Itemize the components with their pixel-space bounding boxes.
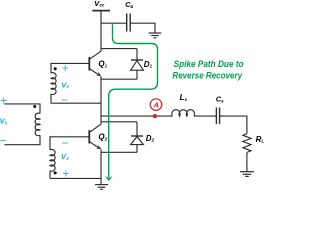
spike path arrowhead [105, 176, 113, 181]
svg-text:−: − [0, 133, 6, 147]
svg-text:vs: vs [0, 115, 8, 126]
wire D2 stage bottom [101, 151, 137, 153]
transformer primary winding [4, 104, 40, 145]
transformer upper secondary winding [51, 63, 89, 103]
wire Q1 stage bottom [101, 78, 137, 80]
svg-text:vs: vs [61, 79, 69, 90]
svg-text:CB: CB [125, 2, 133, 9]
node A circle [150, 99, 162, 111]
svg-text:Reverse Recovery: Reverse Recovery [172, 71, 242, 81]
diode D2 [131, 122, 144, 153]
node A dot [153, 114, 157, 118]
svg-text:Cs: Cs [216, 95, 224, 104]
phase dot upper secondary [54, 67, 57, 70]
ground (CB) [149, 33, 162, 38]
phase dot primary [33, 105, 36, 108]
phase dot lower secondary [54, 171, 57, 174]
Vcc power bar [92, 10, 110, 12]
svg-text:Spike Path Due to: Spike Path Due to [174, 59, 244, 69]
wire Cs to RL [220, 116, 247, 134]
svg-text:Q1: Q1 [98, 59, 107, 68]
wire CB to ground [131, 23, 156, 33]
ground (main) [95, 185, 108, 190]
svg-text:Q2: Q2 [98, 132, 107, 141]
spike path (green) [109, 24, 158, 177]
wire mid rail (Q1 emitter to Q2 collector) [100, 76, 102, 124]
ground (RL) [240, 172, 254, 177]
wire Q2 emitter to ground [100, 149, 102, 184]
inductor Ls [172, 110, 195, 117]
diode D1 [131, 49, 144, 80]
wire RL to ground [246, 152, 248, 171]
svg-text:−: − [62, 136, 69, 150]
svg-text:−: − [61, 93, 68, 107]
svg-text:Vcc: Vcc [94, 0, 105, 8]
transformer lower secondary winding [50, 137, 89, 179]
capacitor CB [127, 14, 131, 32]
wire lower secondary return [50, 177, 101, 179]
svg-text:A: A [153, 100, 159, 109]
transistor Q1 [89, 51, 101, 76]
svg-text:Ls: Ls [180, 93, 188, 102]
transistor Q2 [89, 124, 101, 149]
wire node A output [101, 115, 172, 117]
capacitor Cs [216, 108, 219, 124]
svg-text:RL: RL [256, 135, 264, 144]
wire Q1 stage top [101, 48, 137, 50]
wire D2 stage top [101, 121, 137, 123]
wire Vcc rail to Q1 collector [100, 11, 102, 52]
wire Vcc to CB [101, 22, 126, 24]
svg-text:+: + [0, 94, 7, 108]
svg-text:D2: D2 [146, 134, 155, 143]
svg-text:vs: vs [61, 151, 69, 162]
svg-text:+: + [62, 61, 69, 75]
wire upper secondary return [51, 102, 101, 104]
resistor RL [243, 134, 251, 153]
svg-text:+: + [62, 167, 69, 181]
svg-text:D1: D1 [144, 60, 153, 69]
